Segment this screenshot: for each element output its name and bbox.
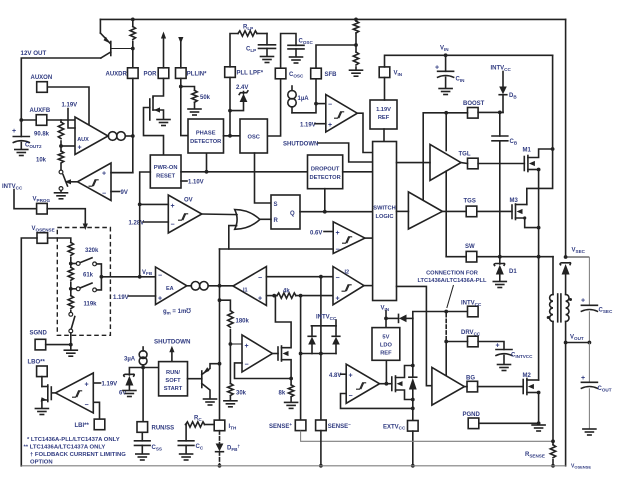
label 1.10V [181, 180, 187, 182]
svg-text:−: − [336, 247, 340, 254]
gate OR1 [235, 210, 260, 230]
op-amp OV comparator [168, 195, 202, 233]
capacitor COUT2 [20, 120, 22, 137]
label 1.19V (LBI ref) [93, 382, 100, 384]
wire SENSE+ to RSENSE top rail [301, 431, 553, 442]
svg-text:+: + [349, 373, 353, 380]
svg-text:SOFT: SOFT [165, 378, 181, 384]
svg-text:RC: RC [194, 416, 202, 422]
op-amp AUX [75, 117, 108, 155]
ground Q2 collector [204, 399, 217, 405]
resistor RLP [238, 31, 257, 36]
node DFB / bottom rail [218, 464, 222, 468]
transistor M6 (POR open-drain NMOS) [153, 78, 164, 97]
svg-text:1.19V: 1.19V [113, 295, 129, 301]
node PGND [537, 421, 541, 425]
wire PLLIN down with arrow [180, 42, 182, 68]
svg-text:I1: I1 [243, 288, 248, 294]
wire EXTVCC vertical upper [412, 318, 414, 365]
wire ITH to 0.6V comparator minus [220, 248, 334, 250]
wire EXTVCC line corner to INTVCC wire [413, 312, 467, 319]
svg-text:EA: EA [166, 286, 174, 292]
transformer T1 [550, 295, 553, 322]
resistor 180k [228, 311, 233, 328]
svg-text:AUXDR: AUXDR [106, 72, 128, 78]
svg-text:I2: I2 [345, 270, 350, 276]
wire BG to M2 gate [478, 386, 524, 388]
svg-text:PLL LPF*: PLL LPF* [237, 71, 264, 77]
node SFB tap [354, 43, 358, 47]
wire BOOST left to drivers [423, 113, 467, 200]
op-amp 9V comparator [78, 163, 112, 201]
node M3 source / M1 source line [537, 226, 541, 230]
pin TGL [468, 158, 479, 169]
node M1 drain / VIN rail [551, 147, 555, 151]
svg-text:VOSENSE: VOSENSE [571, 463, 591, 469]
pin PLLIN [176, 68, 187, 79]
node 90.8k/10k tap [59, 144, 63, 148]
svg-text:COUT: COUT [598, 386, 612, 392]
resistor 90.8k [60, 120, 62, 122]
capacitor CIN [445, 55, 447, 71]
wire AUXDR pin stem [132, 49, 134, 68]
wire PLL LPF down [229, 77, 231, 135]
svg-text:10k: 10k [36, 158, 47, 164]
wire I1 minus to SENSE- line [266, 276, 333, 278]
pin SENSE- [316, 420, 327, 431]
svg-text:Q: Q [290, 211, 295, 217]
wire latch Q to switch logic [300, 211, 373, 213]
pin SGND [35, 339, 46, 350]
svg-text:SHUTDOWN: SHUTDOWN [283, 141, 318, 147]
svg-text:8k: 8k [279, 391, 286, 397]
wire SFB node to comparator [316, 103, 326, 105]
svg-text:REF: REF [380, 351, 392, 357]
resistor RSENSE [552, 441, 554, 445]
svg-text:+: + [581, 298, 585, 305]
resistor RC [186, 422, 205, 427]
svg-text:SGND: SGND [30, 331, 48, 337]
node EA output / ITH [218, 284, 222, 288]
svg-text:+: + [78, 145, 82, 152]
svg-text:90.8k: 90.8k [34, 132, 50, 138]
current source 1uA [291, 86, 293, 91]
node phase detector bottom [205, 170, 209, 174]
wire 180k chain top [220, 300, 231, 311]
node VSEC [564, 255, 568, 259]
pin BOOST [468, 108, 479, 119]
svg-text:COSC: COSC [299, 39, 314, 45]
svg-text:ITH: ITH [229, 424, 237, 430]
svg-text:VIN: VIN [381, 306, 390, 312]
node 320k/61k tap [69, 262, 73, 266]
wire PGND to ground [479, 422, 539, 424]
svg-text:REF: REF [378, 115, 390, 121]
ground SGND [64, 350, 77, 356]
ground 30k [224, 401, 237, 407]
svg-text:DB: DB [509, 93, 517, 99]
transistor M4 (LBO open-drain) [41, 377, 43, 387]
op-amp LBI comparator [56, 373, 94, 413]
svg-text:D1: D1 [509, 269, 517, 275]
svg-text:RESET: RESET [156, 174, 175, 180]
svg-text:30k: 30k [236, 391, 247, 397]
svg-text:CLP: CLP [246, 47, 256, 53]
ground CIN [439, 89, 452, 95]
wire BOOST right to CB [478, 111, 503, 113]
svg-text:−: − [349, 393, 353, 400]
node PLL LPF / phase detector-OSC wire [228, 134, 232, 138]
node M7 drain / INTVCC side [411, 364, 415, 368]
svg-text:LOGIC: LOGIC [375, 214, 393, 220]
wire 4k to I2 plus [296, 295, 333, 297]
diode clamp D3 [335, 345, 337, 354]
diode Z2 (6V zener clamp) [124, 374, 135, 376]
wire VIN rail [385, 55, 553, 67]
box 5V LDO REF [372, 328, 400, 361]
wire PLLIN to 50k and phase detector [181, 78, 188, 135]
wire 1uA to SFB pin [292, 79, 316, 113]
resistor 50k [192, 90, 197, 102]
ground SFB divider [350, 70, 363, 76]
ground M2/PGND [532, 425, 545, 431]
op-amp 0.6V comparator [333, 222, 365, 254]
wire shutdown arrow up [171, 350, 173, 362]
wire bottom rail (VOSENSE return) [21, 465, 565, 467]
svg-text:4.8V: 4.8V [329, 373, 341, 379]
svg-text:−: − [245, 362, 249, 369]
op-amp 4.8V comparator [346, 364, 379, 403]
switch S1 (10k short) [59, 170, 63, 174]
resistor SFB divider bottom [355, 45, 357, 52]
op-amp EA error amp [156, 267, 187, 305]
pin COSC [275, 68, 286, 79]
pin VOSENSE [37, 233, 48, 244]
node SFB comparator tap [314, 102, 318, 106]
svg-text:−: − [102, 191, 106, 198]
svg-text:SW: SW [465, 244, 475, 250]
svg-text:CONNECTION FOR: CONNECTION FOR [426, 271, 478, 277]
svg-text:−: − [171, 222, 175, 229]
ground M4 [35, 409, 48, 415]
wire system line PWR-ON RESET to dropout detector [181, 171, 308, 173]
svg-text:+: + [12, 128, 16, 135]
wire OV plus input from VFB line [140, 203, 169, 205]
pin AUXFB [36, 115, 47, 126]
wire VIN rail to M3 drain [527, 55, 553, 204]
wire INTVCC to VPROG [14, 190, 37, 209]
wire M6 gate to PWR-ON RESET [144, 108, 164, 156]
wire VIN pin to REF box [384, 78, 386, 101]
svg-text:+: + [171, 203, 175, 210]
node RUN/SS top [141, 366, 145, 370]
pin DRVCC [468, 336, 479, 347]
wire SENSE+ vertical [300, 296, 302, 420]
svg-text:+: + [336, 230, 340, 237]
wire tap to AUX plus [61, 145, 75, 147]
wire OR output to latch R [260, 218, 271, 220]
svg-text:2.4V: 2.4V [236, 85, 248, 91]
node AUXFB / COUT2 [19, 118, 23, 122]
svg-text:SFB: SFB [325, 72, 338, 78]
transistor Q2 (PNP ITH clamp) [188, 378, 202, 380]
node 4k right / SENSE+ [299, 294, 303, 298]
resistor 10k [60, 146, 62, 151]
wire OV output to OR input [202, 213, 237, 216]
wire dropout detector bottom to latch Q wire [324, 189, 326, 212]
svg-text:119k: 119k [84, 302, 98, 308]
svg-text:CSS: CSS [152, 445, 162, 451]
svg-text:VIN: VIN [440, 46, 449, 52]
wire 9V comparator plus input [111, 172, 133, 174]
wire VOUT down to bottom rail [565, 343, 567, 466]
svg-text:LTC1436A/LTC1436A-PLL: LTC1436A/LTC1436A-PLL [417, 278, 487, 284]
svg-text:1.19V: 1.19V [102, 382, 118, 388]
node SW/M sources [537, 255, 541, 259]
node M2 source [537, 391, 541, 395]
node SGND junction [69, 343, 73, 347]
svg-text:320k: 320k [85, 248, 99, 254]
svg-text:CIN: CIN [456, 77, 466, 83]
svg-text:DETECTOR: DETECTOR [190, 139, 221, 145]
node VIN/diode [384, 317, 388, 321]
current source 3uA [142, 347, 144, 351]
wire SENSE- down to bottom rail [320, 431, 322, 466]
svg-text:CB: CB [510, 139, 518, 145]
pin ITH [214, 420, 225, 431]
node top rail / SFB divider junction [354, 18, 358, 22]
capacitor COUT [588, 343, 590, 383]
wire RUN/SS pin line [142, 368, 144, 422]
wire tap to B plus [230, 343, 242, 345]
svg-text:PHASE: PHASE [196, 131, 216, 137]
svg-text:AUX: AUX [77, 137, 89, 143]
svg-text:PLLIN*: PLLIN* [187, 72, 207, 78]
diode D4 (schottky rectifier VSEC) [560, 263, 571, 265]
node dropout tap on Q wire [323, 210, 327, 214]
switch S3 lower tap [71, 288, 77, 290]
svg-text:BOOST: BOOST [463, 101, 485, 107]
box DROPOUT DETECTOR [308, 155, 343, 189]
capacitor CINTVCC [478, 342, 504, 350]
wire AUXON to AUX amp [47, 87, 89, 125]
svg-text:INTVCC: INTVCC [491, 66, 512, 72]
svg-text:1.19V: 1.19V [376, 107, 391, 113]
svg-text:AUXON: AUXON [31, 75, 53, 81]
wire SW rail [446, 256, 466, 258]
wire SW down to M2 drain [538, 257, 540, 380]
wire I2 output to switch logic [364, 285, 373, 287]
op-amp TGS driver [408, 192, 442, 229]
diode M7 body [409, 376, 417, 378]
resistor R (Q1 collector load) [132, 19, 134, 26]
svg-text:1.10V: 1.10V [188, 180, 204, 186]
svg-text:+: + [102, 171, 106, 178]
current mirror AUX output [107, 135, 109, 137]
diode Z1 (2.4V zener clamp) [230, 102, 244, 111]
pin AUXDR [128, 68, 139, 79]
svg-text:SHUTDOWN: SHUTDOWN [154, 339, 191, 346]
op-amp SFB comparator [326, 95, 358, 133]
svg-text:180k: 180k [236, 319, 250, 325]
box SR latch [271, 195, 300, 229]
ground CINTVCC [498, 365, 511, 371]
node CB/DB [498, 111, 502, 115]
ground 6V zener [123, 391, 136, 397]
svg-text:R: R [274, 218, 279, 224]
node VOUT [564, 341, 568, 345]
wire transformer primary down to RSENSE [552, 322, 554, 442]
node RSENSE top [551, 439, 555, 443]
node CIN tap [444, 53, 448, 57]
svg-text:INTVCC: INTVCC [461, 301, 482, 307]
svg-text:INTVCC: INTVCC [2, 184, 23, 190]
capacitor CSEC [588, 257, 590, 305]
wire phase detector to OSC [224, 135, 241, 137]
wire 12V OUT [21, 58, 101, 120]
pin INTVCC [468, 306, 479, 317]
svg-text:61k: 61k [83, 273, 94, 279]
node 61k/119k tap [69, 287, 73, 291]
capacitor CC [185, 425, 188, 441]
box PWR-ON RESET [150, 155, 181, 188]
svg-text:* LTC1436A-PLL/LTC1437A ONLY: * LTC1436A-PLL/LTC1437A ONLY [27, 437, 120, 443]
transistor Q1 (PNP pass, 12V OUT) [99, 19, 101, 33]
wire ITH vertical [219, 249, 221, 420]
svg-text:9V: 9V [121, 190, 128, 196]
node zener tap [228, 109, 232, 113]
pin EXTVCC [408, 421, 419, 432]
node I1 minus / SENSE- [319, 275, 323, 279]
svg-text:** LTC1436A/LTC1437A ONLY: ** LTC1436A/LTC1437A ONLY [24, 445, 106, 451]
ground CLP [261, 57, 274, 63]
wire SFB comparator output to switch logic [357, 113, 372, 152]
svg-text:+: + [581, 375, 585, 382]
svg-text:+: + [336, 296, 340, 303]
wire switch logic to BG driver [397, 286, 432, 385]
svg-text:+: + [85, 382, 89, 389]
svg-text:VPROG: VPROG [33, 197, 51, 203]
svg-text:† FOLDBACK CURRENT LIMITING: † FOLDBACK CURRENT LIMITING [30, 452, 126, 458]
node INTVCC / optional link [444, 310, 448, 314]
svg-text:5V: 5V [382, 335, 389, 341]
pin LBI [94, 419, 105, 430]
wire Q1 base to AUXDR node [111, 48, 133, 50]
switch S2 upper tap [71, 263, 77, 265]
node AUX output / AUXDR [131, 134, 135, 138]
wire dropout detector to switch logic [343, 171, 373, 173]
svg-text:M1: M1 [523, 148, 532, 154]
node AUXDR/base junction [131, 47, 135, 51]
wire TGL driver return to SW [445, 171, 447, 257]
svg-text:1.19V: 1.19V [62, 103, 78, 109]
wire VOSENSE to divider [48, 238, 71, 242]
wire SHUTDOWN to switch logic [318, 143, 373, 162]
svg-text:VOSENSE: VOSENSE [32, 226, 55, 232]
svg-text:12V OUT: 12V OUT [21, 50, 47, 57]
svg-text:LBO**: LBO** [28, 360, 46, 366]
pin POR [158, 68, 169, 79]
wire COSC down to OSC [267, 79, 280, 136]
pin LBO [37, 366, 48, 377]
svg-text:−: − [328, 101, 332, 108]
wire TGS to M3 gate [477, 210, 512, 212]
pin VPROG [37, 203, 48, 214]
node 180k tap [218, 298, 222, 302]
svg-text:RSENSE: RSENSE [525, 452, 545, 458]
node SENSE- clamp [319, 352, 323, 356]
wire SW to transformer primary [552, 257, 554, 295]
pin BG [467, 381, 478, 392]
svg-text:−: − [258, 275, 262, 282]
svg-text:VIN: VIN [394, 71, 403, 77]
svg-text:+: + [158, 296, 162, 303]
pin PLL LPF [225, 67, 236, 78]
svg-text:BG: BG [466, 376, 475, 382]
ground CSS [136, 454, 149, 460]
box OSC [240, 119, 267, 153]
wire 9V comparator output arrow to switch [70, 181, 78, 183]
box RUN SOFT START [159, 362, 188, 396]
op-amp B comparator [242, 335, 272, 372]
diode DFB (foldback) [216, 444, 224, 452]
wire ITH dashed to DFB [219, 431, 221, 444]
ground D1 [493, 282, 506, 288]
pin SFB [311, 68, 322, 79]
ground COUT [583, 429, 596, 435]
svg-text:LBI**: LBI** [75, 423, 90, 429]
ground COUT2 [15, 150, 28, 156]
capacitor CSS [141, 432, 143, 441]
node VFB [138, 275, 142, 279]
pin AUXON [37, 82, 48, 93]
op-amp TGL driver [430, 144, 461, 180]
svg-text:VSEC: VSEC [572, 248, 586, 254]
capacitor CLP [266, 34, 268, 45]
wire AUXFB left [21, 119, 36, 121]
resistor 119k [70, 289, 72, 296]
wire LBI minus input [93, 402, 99, 419]
svg-text:RLP: RLP [243, 25, 253, 31]
node VFB line OV tap [138, 203, 142, 207]
svg-text:VOUT: VOUT [570, 335, 584, 341]
box feedback divider (dashed) [57, 228, 110, 336]
svg-text:4k: 4k [283, 289, 290, 295]
node 4k left [272, 294, 276, 298]
label 9V [111, 191, 120, 193]
svg-text:POR: POR [144, 72, 158, 78]
node BOOST/TGL driver supply [444, 111, 448, 115]
svg-text:DRVCC: DRVCC [461, 330, 481, 336]
wire VSEC to CSEC branch [566, 256, 590, 258]
wire transformer secondary down to VOUT [565, 322, 567, 343]
svg-text:LDO: LDO [380, 343, 393, 349]
svg-text:TGL: TGL [459, 152, 471, 158]
node gate node [385, 382, 389, 386]
svg-text:SWITCH: SWITCH [373, 206, 395, 212]
wire DRVCC to BG driver supply [446, 341, 467, 343]
svg-text:M3: M3 [510, 198, 519, 204]
svg-text:TGS: TGS [464, 199, 476, 205]
wire to 6V zener [129, 368, 143, 376]
wire 4.8V minus to EXTVCC [341, 394, 413, 409]
current mirror EA output [187, 285, 192, 287]
svg-text:1µA: 1µA [298, 96, 310, 102]
wire VPROG arrow to divider box [47, 209, 85, 225]
svg-text:EXTVCC: EXTVCC [383, 424, 406, 430]
svg-text:START: START [164, 386, 183, 392]
node SW/D1 [498, 255, 502, 259]
